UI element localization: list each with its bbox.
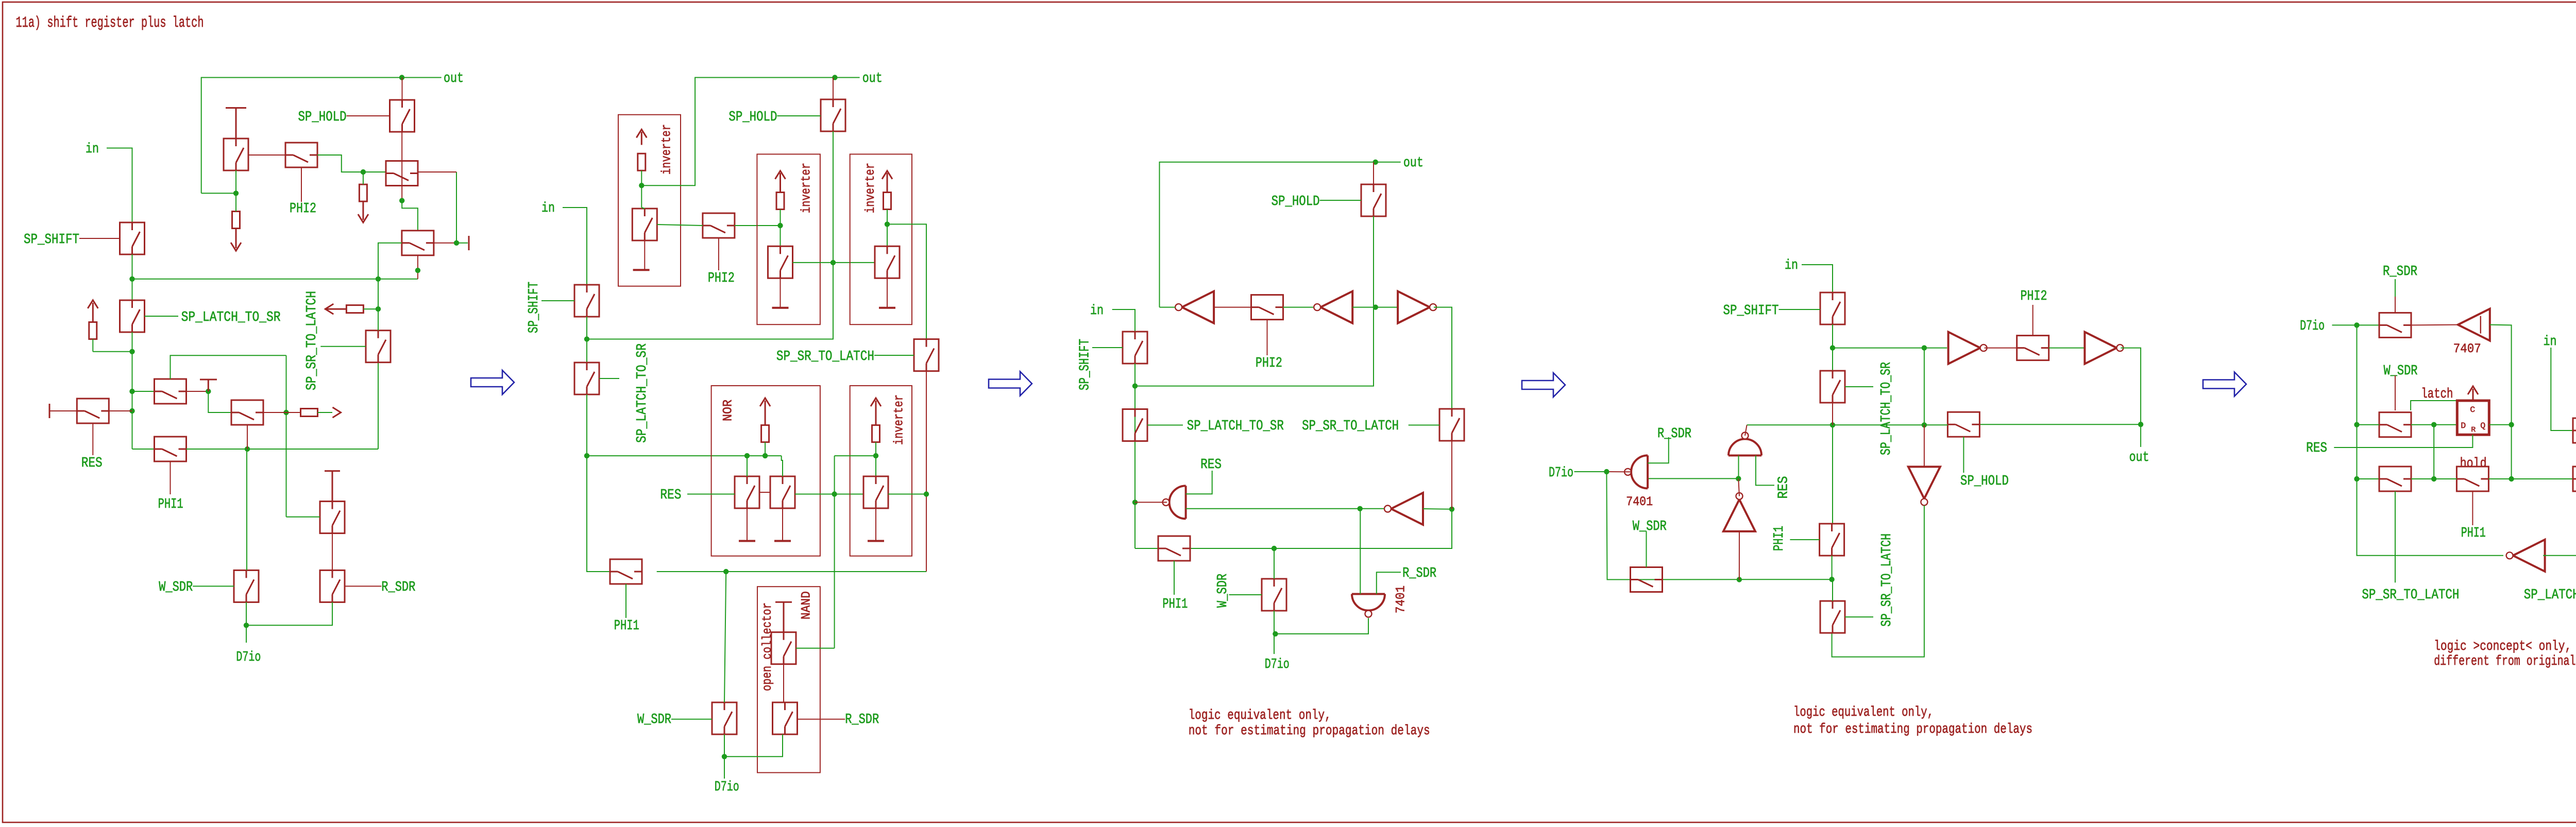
wire SP_HOLD top to out [402,78,403,100]
wire RES to NAND1 input (P3) [1186,471,1212,494]
wire hold gate stub (P5) [2472,491,2473,525]
wire inverter4 out to feedback chain [888,494,926,495]
junction D7io (P2) [722,754,727,759]
svg-text:SP_LATCH_TO_SR: SP_LATCH_TO_SR [1187,419,1284,434]
wire SR chain to PHI1 row (P3) [1190,509,1452,548]
junction inverter2 node [777,223,783,228]
svg-text:SP_SR_TO_LATCH: SP_SR_TO_LATCH [304,291,320,390]
resistor inverter4 [872,425,880,442]
wire to T6 [132,391,155,392]
svg-text:7407: 7407 [2453,341,2481,356]
junction input row (P4) [1736,476,1741,481]
wire D7io stub [246,625,247,643]
junction FF1 D node (P5) [2431,422,2436,427]
wire NAND T1 to T2 [783,664,784,703]
wire inverter4 node to NAND column [835,455,876,456]
wire long row W_SDR (P4) [1607,579,1832,580]
wire D7io column (P4) [1606,472,1630,580]
svg-text:SP_HOLD: SP_HOLD [298,110,347,125]
wire corner to T7 [208,391,231,412]
wire PHI2 gate stub up (P4) [2032,305,2033,336]
ground inverter4 [875,508,876,541]
svg-text:D: D [2461,421,2466,430]
wire NAND2 inputs (P3) [1360,509,1361,594]
transistor T_SHIFT (P1) [120,222,145,254]
transistor T5 SP_LATCH_TO_SR (P1) [120,300,145,332]
wire D node to hold row (P5) [2433,425,2434,479]
wire NOR tops [747,456,748,460]
transistor T6 (P1) [155,379,187,404]
wire D7io to junction (P4) [1574,471,1607,472]
transistor T10 (P1) [320,502,345,533]
NAND box (P2) [757,587,820,772]
resistor inverter3 [884,193,891,210]
svg-text:7401: 7401 [1393,585,1408,613]
svg-text:RES: RES [2306,441,2327,456]
wire SP_SHIFT label to gate [79,238,120,239]
inverter box 1 (P2) [618,115,681,286]
junction out (P3) [1373,160,1378,165]
svg-text:PHI1: PHI1 [2461,526,2486,541]
svg-text:logic equivalent only,: logic equivalent only, [1189,708,1331,723]
transistor T_LATCH SP_LATCH_TO_SR (P4) [1820,371,1845,403]
junction FF1 Q (P5) [2509,422,2514,427]
wire SP_HOLD stubs (P3) [1373,162,1374,184]
junction chain on feedback (P4) [1830,422,1835,427]
wire W_SDR top chain (P2) [724,572,726,702]
svg-text:in: in [1090,303,1104,319]
wire T4 to T-bar terminal [456,243,468,244]
wire T_SHIFT to latch chain [132,254,133,300]
wire T_latchwrite gate stub (P5) [2395,491,2396,582]
junction hold feedback row (P2) [584,336,589,341]
junction NAND1 out (P3) [1132,499,1138,505]
pullup arrow inverter2 [775,171,786,179]
resistor inverter1 [638,153,646,170]
ground inverter2 [780,278,781,308]
junction inverter I4 out (P3) [1358,506,1363,511]
wire PHI2 gate stub (P2) [718,238,719,270]
junction D7io (P4) [1604,469,1609,474]
junction inverter4 out (P2) [924,491,929,496]
transistor PHI1 (P2) [610,559,642,584]
wire hold loop row (P3) [1135,307,1374,386]
open-drain arrow below R2 [362,201,364,220]
junction T4-gate column resistor branch [376,306,381,312]
svg-text:open collector: open collector [760,602,775,691]
junction T6 right [206,389,211,394]
junction W_SDR left (P5) [2354,422,2359,427]
transistor NOR left (P2) [735,476,759,508]
svg-text:R_SDR: R_SDR [1402,566,1436,581]
wire T9 top to big wire [378,279,379,331]
svg-text:SP_SHIFT: SP_SHIFT [24,232,79,248]
wire in to SP_SHIFT chain [107,148,132,223]
junction SP_HOLD chain crossing [831,260,836,265]
blue arrow 2 [989,372,1032,396]
wire NOR input row (P2) [587,455,782,456]
wire T2 gate to PHI2 label [301,167,302,202]
wire NAND column vertical [834,456,835,648]
svg-text:NAND: NAND [799,591,814,619]
junction arrow branch [129,349,134,354]
svg-text:W_SDR: W_SDR [1633,519,1667,535]
svg-text:PHI1: PHI1 [1772,526,1787,551]
wire NAND2 out bubble to row (P4) [1745,425,1747,436]
inverter I1 left-pointing (P3) [1182,291,1214,323]
wire chain T_SHIFT to T_LATCH (P2) [586,317,587,363]
wire label to SP_SR_TO_LATCH gate (P2) [874,355,914,356]
transistor W_SDR (P4) [1631,567,1663,592]
wire chain down (P4) [1832,324,1833,371]
junction W_SDR chain (P3) [1272,546,1277,551]
svg-text:in: in [541,201,555,216]
junction NAND gate column [832,491,837,496]
junction inverter3 node [885,221,890,227]
wire PHI1 gate stub (P2) [625,584,626,618]
junction below T3 [399,198,404,203]
svg-text:SP_SR_TO_LATCH: SP_SR_TO_LATCH [1302,419,1399,434]
transistor T4 (P1) [402,231,434,255]
wire chain to PHI1 row (P2) [587,394,610,572]
wire feedback row right (P4) [1979,424,2141,425]
junction inverter up input (P4) [1737,577,1742,582]
wire T3 right to T4 branch [418,171,456,173]
svg-text:D7io: D7io [1265,657,1290,673]
junction NOR input row (P2) [584,453,589,458]
svg-text:hold: hold [2460,456,2487,472]
NAND2 7401 down-pointing (P3) [1352,594,1385,611]
junction D7io column (P5) [2354,322,2359,328]
wire B1 to PHI2 T (P4) [1985,348,2016,349]
svg-text:SP_LATCH_TO_SR: SP_LATCH_TO_SR [1879,362,1894,455]
NAND1 7401 left-pointing (P4) [1631,455,1648,488]
transistor T1 (P1 top-left) [224,139,248,170]
svg-text:in: in [86,142,99,157]
wire in column (P5) [2551,348,2573,430]
junction T4-gate column on big wire [376,277,381,282]
transistor latchwrite2 (P5) [2573,467,2576,491]
transistor SP_HOLD (P1) [390,100,415,132]
junction resistor branch T3 row [361,169,366,175]
wire T5 gate to label [145,316,179,317]
svg-text:PHI1: PHI1 [1162,597,1188,612]
wire T1 gate to T2 [248,154,285,156]
svg-text:RES: RES [660,488,681,503]
wire NAND1 out to D7io (P4) [1606,471,1632,472]
wire SP_SHIFT label to gate (P4) [1779,309,1821,310]
wire T7 gate stub [247,425,248,449]
svg-text:R_SDR: R_SDR [381,580,415,595]
junction SR node (P4) [1830,345,1835,350]
wire PHI2 T to inverter2 (P2) [735,225,781,226]
wire T9 gate to label [320,346,366,347]
T-bar terminal (P1 right) [468,236,470,250]
junction big wire left [129,277,134,282]
wire W_SDR bottom to D7io (P3) [1274,611,1275,654]
wire W_SDR top stub (P3) [1274,548,1275,579]
wire 7407 out column (P5) [2490,325,2512,479]
svg-text:R_SDR: R_SDR [845,712,879,728]
transistor SP_SR_TO_LATCH (P4) [1820,601,1845,633]
wire T8 gate to PHI1 [170,461,171,494]
wire NOR left T top stub [747,456,748,476]
wire inverter1 out to P2 out loop [641,78,859,186]
junction T7 output column [283,410,289,415]
svg-text:out: out [862,71,883,87]
NAND1 7401 left-pointing (P3) [1170,486,1186,519]
wire T5 bottom chain [132,332,133,449]
svg-text:RES: RES [1776,476,1792,499]
transistor W_SDR (P5) [2379,412,2411,437]
wire T_LATCH gate to label (P4) [1845,386,1873,387]
ground inverter3 [887,278,888,308]
wire mid column to T10 gate [286,516,320,518]
right chevron arrow (P1) [333,407,341,418]
wire W_SDR label to gate (P5) [2395,375,2396,410]
wire inverter out left (P5) - see left column [2543,555,2576,556]
wire T6 right to corner [187,391,209,392]
svg-text:Q: Q [2480,421,2485,430]
pullup arrow NOR [760,398,770,406]
wire NOR out to inverter4 gate [795,494,864,495]
wire PHI1 gate to label (P4) [1790,539,1819,540]
wire D7io to R_SDR T (P5) [2332,324,2380,325]
inverter box 2 (P2) [757,154,820,324]
transistor SP_HOLD (P4) [1947,412,1979,437]
transistor R_SDR (P5) [2379,313,2411,337]
wire T6 gate top loop [171,355,286,379]
wire T8 right long row [187,449,379,450]
buffer B1 right-pointing (P4) [1948,332,1980,364]
wire I4 input from SR_TO_LATCH chain (P3) [1423,508,1452,510]
junction D7io (P3) [1273,631,1278,636]
blue arrow 1 [471,370,514,394]
svg-text:logic >concept< only,: logic >concept< only, [2434,639,2571,654]
transistor PHI1 (P3) [1158,536,1190,561]
svg-text:7401: 7401 [1626,494,1653,509]
wire SP_HOLD label to gate (P2) [777,115,821,116]
wire W_SDR gate stub (P4) [1646,531,1647,567]
wire NAND2 input1 (P4) [1738,456,1739,478]
resistor NOR [761,425,769,442]
wire chain to PHI1 (P4) [1832,425,1833,523]
wire input row long (P4) [1648,478,1738,479]
wire in to chain (P4) [1802,265,1833,292]
svg-text:D7io: D7io [1549,466,1573,481]
svg-text:C: C [2470,405,2475,415]
wire I_up out (P4) [1738,478,1739,496]
wire NOR left T to right T [759,492,770,493]
junction out (P4) [2138,422,2143,427]
wire PHI1 gate stub (P3) [1174,561,1175,595]
junction left column row2 (P5) [2354,476,2359,481]
wire inverter1 gate to PHI2 T [657,225,703,226]
wire left column (P5) [2357,325,2504,555]
svg-text:R: R [2471,426,2476,434]
junction NOR left transistor top [744,453,750,458]
wire B2 out to feedback (P4) [2121,348,2141,425]
inverter I4 left-pointing (P3) [1391,493,1423,525]
wire out loop to I1 bubble (P3) [1160,307,1176,308]
svg-text:SP_SR_TO_LATCH: SP_SR_TO_LATCH [1879,533,1895,627]
wire SP_HOLD gate stub (P4) [1963,437,1964,473]
resistor inverter2 [776,193,784,210]
wire chain down (P3) [1134,364,1136,548]
svg-text:RES: RES [81,456,103,471]
wire vertical branch (P4) [1924,348,1925,425]
wire T10 to R_SDR transistor [332,533,333,571]
transistor SP_SR_TO_LATCH (P3) [1439,409,1464,441]
wire chain elbow to PHI1 (P3) [1135,548,1158,549]
svg-text:W_SDR: W_SDR [1215,574,1231,608]
svg-text:R_SDR: R_SDR [1657,426,1691,442]
transistor T2 PHI2 (P1) [285,143,317,167]
wire PHI2 T to B2 (P4) [2049,348,2085,349]
resistor R1 (P1) [232,212,240,229]
wire row up to T9 [378,363,379,449]
wire bottoms to D7io [246,602,332,625]
wire SP_HOLD top to out (P2) [833,78,834,100]
svg-text:not for estimating propagation: not for estimating propagation delays [1189,723,1430,739]
wire T4 bottom to big wire [417,255,418,279]
wire out stub (P4) [2140,424,2141,447]
wire SP_HOLD chain down (P2) [833,131,834,339]
transistor T_RES (P1) [77,399,109,423]
svg-text:not for estimating propagation: not for estimating propagation delays [1793,722,2032,737]
wire bottoms D7io (P2) [724,734,783,756]
transistor T_latchwrite (P5) [2379,467,2411,491]
wire hold row (P5) [2411,478,2456,479]
svg-text:in: in [1785,258,1798,273]
junction T4 right [454,240,459,246]
wire NAND2 input2 to RES (P4) [1756,456,1774,486]
wire SP_SHIFT label to gate (P2) [541,300,574,301]
wire W_SDR right to FF1 (P5) [2411,424,2457,425]
junction T_RES row [129,408,134,413]
junction T4 bottom [415,268,420,273]
wire D7io stub (P2) [724,756,725,779]
junction D7io (P1) [244,623,249,628]
open-drain arrow below R1 [235,229,237,249]
svg-text:SP_SHIFT: SP_SHIFT [527,282,542,333]
wire latch net to FF1 C (P5) [2411,401,2457,410]
wire top out net [201,78,442,194]
wire NAND T2 gate to R_SDR label [798,719,845,720]
wire SP_HOLD label to gate [347,115,390,116]
svg-text:SP_LATCH_TO_SR: SP_LATCH_TO_SR [2524,588,2576,603]
wire in to chain (P2) [563,208,587,285]
wire T4 right to terminal [434,243,456,244]
wire T_LATCH gate to label (P3) [1147,425,1183,426]
wire W_SDR left (P5) [2357,424,2380,425]
buffer B2 right-pointing (P4) [2084,332,2116,364]
svg-text:out: out [2129,450,2149,466]
svg-text:inverter: inverter [863,163,878,213]
wire NAND2 output to D7io (P3) [1275,618,1368,634]
transistor NAND T2 R_SDR (P2) [773,702,798,734]
long wire hold feedback (P2) [587,339,834,340]
wire SP_SR_TO_LATCH bottom chain (P2) [926,371,927,572]
transistor T_SHIFT (P2) [574,285,599,317]
svg-text:PHI2: PHI2 [290,201,316,217]
svg-text:D7io: D7io [2300,319,2325,334]
svg-text:SP_HOLD: SP_HOLD [1272,194,1320,210]
up arrow + resistor branch (P1) [88,300,98,308]
wire T4 gate column [378,243,402,330]
NAND2 7401 up-pointing (P4) [1728,439,1761,456]
gate tie T-bar above T1 [226,108,246,139]
junction buffer branch (P4) [1922,345,1927,350]
wire feedback row left (P4) [1747,424,1948,425]
wire R_SDR gate stub (P5) [2395,279,2396,297]
wire gate to label (P4) [1845,616,1873,617]
transistor SP_HOLD (P2) [821,99,845,131]
junction NOR pullup [762,453,768,458]
wire R_SDR T to 7407 (P5) [2411,324,2458,326]
svg-text:SP_LATCH_TO_SR: SP_LATCH_TO_SR [181,310,281,325]
T-bar cap above T10 [325,471,340,502]
wire R_SDR gate to label [345,585,382,587]
inverter I_down (P4) [1908,467,1940,498]
wire W_SDR label to gate (P3) [1229,594,1262,595]
wire T_RES gate to RES [92,423,93,455]
wire SP_HOLD chain through T3 [401,132,402,201]
transistor T_LATCH SP_LATCH_TO_SR (P2) [574,363,599,394]
junction PHI1 row (P4) [1829,577,1834,582]
transistor hold (P5) [2456,467,2488,491]
wire NAND1 out to chain (P3) [1135,502,1167,503]
transistor PHI2 pass (P4) [2017,336,2049,360]
wire T_RES right to chain [109,410,132,411]
T-bar cap above corner [200,380,217,391]
wire FF1 Q to column (P5) [2489,424,2511,425]
junction T7 gate [245,446,250,452]
wire row2 left elbow (P5) [2357,478,2380,479]
transistor T_SHIFT (P3) [1123,332,1147,364]
svg-text:SP_SHIFT: SP_SHIFT [1078,339,1093,390]
transistor NOR right (P2) [770,476,795,508]
junction T1 bottom [233,191,239,196]
open-collector arrow FF1 (P5) [2472,389,2474,401]
wire inverter down input (P4) [1924,425,1925,467]
transistor PHI2 pass (P2) [703,213,735,238]
T-bar terminal left (P1) [49,404,50,418]
wire I2 base to junction (P3) [1352,307,1399,308]
svg-text:W_SDR: W_SDR [637,712,671,728]
transistor T3 (P1) [386,161,418,186]
transistor inverter3 driver [875,246,900,278]
svg-text:PHI2: PHI2 [1256,356,1282,371]
junction T6 row [129,389,134,394]
transistor inverter1 driver (P2) [632,209,657,240]
wire NAND1 input R_SDR (P4) [1648,437,1669,463]
junction inverter1 output [639,183,644,188]
junction 7407 column row2 (P5) [2509,476,2514,481]
junction out wire [399,75,404,80]
transistor W_SDR (P3) [1262,579,1286,611]
wire T2 to T3 row [317,155,386,172]
transistor inverter2 driver [768,246,793,278]
junction W_SDR branch (P2) [723,569,728,574]
svg-text:R_SDR: R_SDR [2383,264,2417,280]
transistor SP_HOLD (P3) [1361,184,1386,216]
svg-text:out: out [444,71,464,87]
wire PHI2 gate stub (P3) [1267,320,1268,355]
svg-text:SP_HOLD: SP_HOLD [1960,474,2009,489]
wire hold right long (P5) [2488,478,2573,479]
svg-text:NOR: NOR [721,400,736,421]
